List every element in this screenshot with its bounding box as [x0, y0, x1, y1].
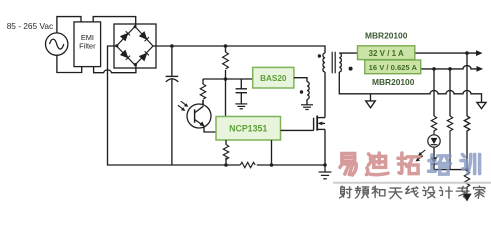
- svg-text:MBR20100: MBR20100: [365, 31, 408, 41]
- arrow 32V output: [476, 50, 483, 56]
- node Vcc pin: [224, 77, 228, 81]
- node NCP gnd pin: [270, 163, 274, 167]
- node primary dot: [318, 54, 321, 57]
- transformer T1 secondary: [339, 53, 341, 72]
- wire AC top to EMI: [57, 17, 81, 33]
- IC U1 NCP1351: [216, 117, 281, 141]
- bridge diode D2 top-right: [140, 32, 149, 41]
- watermark char pin: [355, 186, 368, 198]
- optocoupler U2: [187, 104, 211, 128]
- svg-text:32 V / 1 A: 32 V / 1 A: [369, 49, 405, 58]
- node branch tie: [465, 168, 469, 172]
- wire Vcc pin to NCP1351: [225, 79, 227, 117]
- wire source to rail: [324, 129, 326, 165]
- watermark char she: [340, 186, 352, 198]
- svg-text:MBR20100: MBR20100: [372, 77, 415, 87]
- wire 16V output (hop over 32V branch): [421, 66, 477, 69]
- wire DC+ rail: [153, 46, 325, 53]
- watermark char tian: [389, 188, 402, 199]
- watermark char he: [372, 186, 385, 197]
- svg-text:16 V / 0.625 A: 16 V / 0.625 A: [369, 63, 418, 72]
- watermark char xian: [406, 186, 418, 197]
- WATERMARK: [333, 153, 491, 199]
- wire NCP gnd pin: [271, 140, 273, 165]
- capacitor Cvcc: [236, 79, 247, 104]
- wire 32V output: [339, 52, 476, 54]
- ground secondary mid: [366, 94, 376, 108]
- resistor Ropto: [200, 79, 205, 105]
- wire EMI bottom to bridge bottom (hop over ground drop): [94, 65, 136, 72]
- diode box BAS20: [253, 67, 294, 88]
- inductor Laux: [307, 82, 309, 100]
- ground secondary right: [477, 102, 486, 108]
- wire AC bottom to EMI: [57, 55, 82, 72]
- node bridge bottom: [134, 63, 137, 66]
- node bridge top: [134, 25, 137, 28]
- watermark char jia: [474, 186, 485, 198]
- watermark char zhuan: [456, 186, 469, 198]
- AC source V1: [46, 33, 68, 55]
- wire secondary return rail (hops over branches): [339, 72, 481, 102]
- bridge diode D4 bottom-right: [140, 51, 149, 60]
- transformer T1 core: [332, 52, 335, 73]
- EMI filter box: [74, 22, 101, 67]
- node 16V branch B: [448, 67, 452, 71]
- bridge diode D1 top-left: [121, 31, 130, 40]
- watermark char she2: [423, 187, 435, 198]
- bridge diode D3 bottom-left: [121, 51, 130, 60]
- resistor RledC: [464, 116, 469, 171]
- watermark char pei: [428, 155, 450, 174]
- resistor Rret: [464, 171, 469, 194]
- svg-text:85 - 265 Vac: 85 - 265 Vac: [7, 21, 53, 31]
- watermark char tuo: [398, 153, 420, 174]
- svg-text:Filter: Filter: [79, 41, 96, 50]
- return arrow: [462, 194, 471, 202]
- node bulk cap: [170, 44, 174, 48]
- LED emission arrows: [416, 150, 426, 161]
- resistor Rsense: [240, 162, 255, 167]
- watermark char xun: [461, 154, 480, 173]
- arrow 16V output: [477, 66, 484, 72]
- wire bridge negative to bottom rail: [108, 46, 241, 165]
- resistor Rstartup (Vcc dropper): [223, 46, 229, 79]
- label box 32V output: [358, 46, 415, 60]
- watermark char di: [366, 153, 388, 175]
- label box 16V output: [365, 60, 421, 74]
- wire bottom rail right of sense resistor: [257, 164, 325, 166]
- node aux polarity dot: [300, 90, 303, 93]
- node source rail: [323, 163, 327, 167]
- node Vcc dropper: [224, 44, 228, 48]
- wire EMI top to bridge top: [93, 17, 136, 27]
- node secondary dot: [349, 67, 353, 71]
- ground Cvcc: [235, 104, 247, 109]
- node bridge left: [115, 44, 118, 47]
- svg-text:NCP1351: NCP1351: [229, 123, 267, 133]
- wire drain to primary: [324, 72, 326, 118]
- diode D6 branch A: [431, 147, 438, 169]
- wire aux to ground: [306, 99, 308, 104]
- node 16V branch A: [432, 67, 436, 71]
- transformer T1 primary: [323, 53, 325, 72]
- wire Vcc node rail: [203, 78, 253, 80]
- LED D5 indicator: [428, 135, 440, 147]
- node 32V branch: [465, 51, 469, 55]
- load branch B wire: [449, 69, 451, 116]
- watermark char yi: [340, 153, 356, 175]
- transistor Q1 MOSFET: [314, 116, 325, 131]
- watermark char ji: [439, 187, 452, 198]
- ground primary: [319, 165, 332, 179]
- load branch A wire: [433, 69, 435, 116]
- ground aux: [301, 105, 313, 110]
- wire BAS20 to aux winding: [294, 78, 307, 82]
- svg-text:BAS20: BAS20: [260, 74, 287, 83]
- resistor Rct (NCP pin): [223, 140, 228, 165]
- wire NCP drive to gate: [281, 129, 314, 131]
- watermark rule: [333, 182, 491, 184]
- wire opto emitter to NCP1351: [204, 126, 216, 132]
- node Rct bottom: [224, 163, 228, 167]
- bridge diamond: [117, 27, 154, 66]
- load branch C wire: [466, 53, 468, 116]
- resistor RledA: [431, 116, 436, 135]
- opto light arrows: [178, 101, 189, 111]
- bridge rectifier box: [114, 24, 156, 68]
- wire opto collector: [202, 100, 204, 105]
- resistor RledB: [447, 116, 452, 170]
- wire branch bottom tie: [434, 169, 467, 171]
- capacitor Cbulk: [166, 46, 179, 165]
